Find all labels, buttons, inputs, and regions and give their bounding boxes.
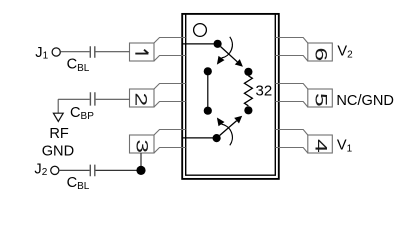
switch SW1 arm arrowhead <box>235 59 243 67</box>
svg-text:GND: GND <box>42 144 74 160</box>
svg-text:4: 4 <box>312 139 330 153</box>
switch SW2 arm arrowhead <box>234 116 242 124</box>
switch SW2 arc arrowhead <box>217 118 225 127</box>
switch SW2 throw arc <box>222 124 233 145</box>
wire CBP to pin2 <box>96 98 130 100</box>
switch SW1 arm <box>221 47 238 62</box>
wire pin1 to top pole <box>183 43 218 45</box>
capacitor CBL (bottom) <box>90 165 95 177</box>
wire CBL to junction <box>96 169 142 171</box>
pin 2 lead <box>130 84 186 108</box>
junction node <box>136 166 145 175</box>
pin-1 indicator circle <box>194 24 207 37</box>
node bottom pole <box>213 134 221 142</box>
pin 6 lead <box>275 38 332 62</box>
svg-text:NC/GND: NC/GND <box>336 93 394 109</box>
node top-left throw <box>204 67 212 75</box>
resistor 32 ohm <box>244 76 252 106</box>
pin 4 lead <box>275 130 332 154</box>
pin 5 lead <box>275 84 332 108</box>
wire J1 to CBL <box>60 51 89 53</box>
switch SW2 arm <box>220 121 237 136</box>
node bottom-right throw <box>244 106 252 114</box>
IC package inner outline <box>186 14 276 175</box>
capacitor CBL (top) <box>90 46 95 58</box>
wire left throws vertical <box>207 71 209 110</box>
svg-text:2: 2 <box>132 92 150 106</box>
RF ground symbol <box>53 113 63 121</box>
wire pin3 to bottom pole <box>183 137 217 139</box>
connector J2 terminal circle <box>51 166 59 174</box>
node top pole <box>214 40 222 48</box>
svg-text:3: 3 <box>133 139 151 153</box>
node bottom-left throw <box>204 107 212 115</box>
pin 3 lead <box>130 130 186 154</box>
wire J2 to CBL <box>59 169 90 171</box>
node top-right throw <box>244 68 252 76</box>
wire junction to pin3 bottom <box>140 153 142 170</box>
wire CBP left branch <box>58 99 90 113</box>
connector J1 terminal circle <box>52 48 60 56</box>
svg-text:6: 6 <box>312 47 330 61</box>
switch SW1 arc arrowhead <box>217 56 225 65</box>
IC package U1 outer body <box>182 14 279 179</box>
svg-text:32: 32 <box>256 83 273 100</box>
svg-text:5: 5 <box>312 93 330 107</box>
wire CBL to pin1 <box>96 51 130 53</box>
pin 1 number <box>135 50 148 54</box>
svg-text:RF: RF <box>49 126 69 142</box>
capacitor CBP <box>90 92 95 105</box>
switch SW1 throw arc <box>222 37 233 58</box>
pin 1 lead <box>130 38 186 62</box>
